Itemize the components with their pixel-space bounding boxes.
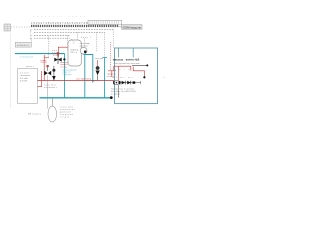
cold water tee (teal) <box>103 57 108 59</box>
pump M1 <box>113 80 120 84</box>
wire row 3 <box>34 34 70 36</box>
control box divider <box>132 48 134 57</box>
teal riser x64.6 <box>64 54 66 98</box>
teal stub x118.4 <box>117 48 119 57</box>
cold water line <box>40 97 112 99</box>
svg-text:бойлер: бойлер <box>70 48 79 51</box>
teal riser x84.8 <box>84 54 86 98</box>
svg-text:МВ машина: МВ машина <box>28 114 42 116</box>
pump row line <box>113 82 141 84</box>
svg-text:котёл 1: котёл 1 <box>26 66 35 68</box>
svg-text:насосы: насосы <box>113 58 124 62</box>
terminal strip X1 <box>31 25 118 27</box>
svg-text:блок управления насосами: блок управления насосами <box>114 63 140 65</box>
row tag glyphs <box>30 29 32 40</box>
red wire to boiler 2 <box>133 67 144 77</box>
circulation pump (oval) <box>51 98 53 106</box>
svg-text:отопления 1: отопления 1 <box>44 87 58 89</box>
wire drop to tank top <box>77 32 79 40</box>
label GSM module <box>118 25 142 30</box>
red stub near box <box>108 70 116 72</box>
arrow on branch <box>92 80 95 83</box>
pump M6 on mains <box>52 66 56 80</box>
wire J1 to strip <box>11 26 31 28</box>
wire pump row to neutral <box>118 84 120 97</box>
svg-text:котёл №2: котёл №2 <box>126 58 140 62</box>
svg-text:24 кВт: 24 кВт <box>20 78 28 80</box>
svg-text:газовый: газовый <box>20 74 31 77</box>
svg-text:бойлера: бойлера <box>63 73 73 76</box>
svg-text:Реле 1: Реле 1 <box>81 37 92 39</box>
valve V1 (3-way) <box>54 52 65 64</box>
tank B1 <box>68 40 81 66</box>
main red line 220V <box>38 80 116 82</box>
wire drop x113.2 to control box <box>112 29 114 48</box>
control box (teal) <box>115 48 158 104</box>
wire M5 to mains <box>97 75 99 80</box>
check valve M2 <box>122 81 125 85</box>
wire drop x104.8 <box>104 32 106 57</box>
svg-text:отопление: отопление <box>20 57 34 59</box>
red wiring inside control box <box>114 66 131 70</box>
neutral bar with dot <box>132 64 148 66</box>
heating supply line (teal) <box>15 53 65 55</box>
svg-text:220 В: 220 В <box>41 62 48 64</box>
svg-text:насос рец: насос рец <box>95 58 104 60</box>
wire row 2 <box>34 31 105 33</box>
wire drop to label K1 <box>31 38 33 42</box>
wire drop to pump P1 <box>84 38 86 47</box>
indoor unit box <box>18 66 38 103</box>
wire row 4 <box>34 37 66 39</box>
connector J1 <box>4 24 11 31</box>
red wire from indoor unit <box>38 71 42 87</box>
wire drop x67.6 <box>67 35 69 50</box>
enclosure boundary <box>10 33 12 108</box>
recirculation branch (teal) <box>84 55 93 81</box>
wire arc into tank <box>67 38 74 43</box>
svg-text:сеть 220В 50Гц: сеть 220В 50Гц <box>76 78 92 80</box>
wire drop x96.8 <box>96 32 98 52</box>
red wire V1 down <box>43 55 45 81</box>
svg-text:L N 1 2 3 4 5 6 7 8 9 0 1 2: L N 1 2 3 4 5 6 7 8 9 0 1 2 <box>33 16 86 18</box>
svg-text:152637481526374815263748: 152637481526374815263748 <box>31 21 88 25</box>
label K1 box <box>15 42 31 47</box>
valve M4 <box>133 81 136 83</box>
red drop to pump M5 <box>97 60 99 66</box>
junction dot <box>110 96 113 99</box>
pump M5 <box>96 66 100 75</box>
svg-text:куляции: куляции <box>80 45 88 47</box>
pump P1 <box>80 47 87 54</box>
wire drop x48.8 <box>48 37 50 58</box>
svg-text:3-ход: 3-ход <box>61 67 68 69</box>
wire row 1 <box>34 28 113 30</box>
svg-text:насос конт.: насос конт. <box>44 85 56 87</box>
svg-text:GSM модуль: GSM модуль <box>123 25 142 29</box>
red dashed drop x110.4 <box>109 42 111 71</box>
red junction V1 <box>44 57 49 59</box>
connector block X2 <box>88 20 122 24</box>
svg-text:220В: 220В <box>20 81 28 83</box>
svg-text:200 л: 200 л <box>70 52 78 54</box>
valve V2 <box>44 65 51 108</box>
svg-text:комнатн.: комнатн. <box>17 44 30 47</box>
check valve M3 <box>127 81 130 85</box>
svg-text:котёл: котёл <box>20 72 30 74</box>
svg-text:220В: 220В <box>53 55 60 57</box>
red wire left of tank <box>58 47 68 57</box>
